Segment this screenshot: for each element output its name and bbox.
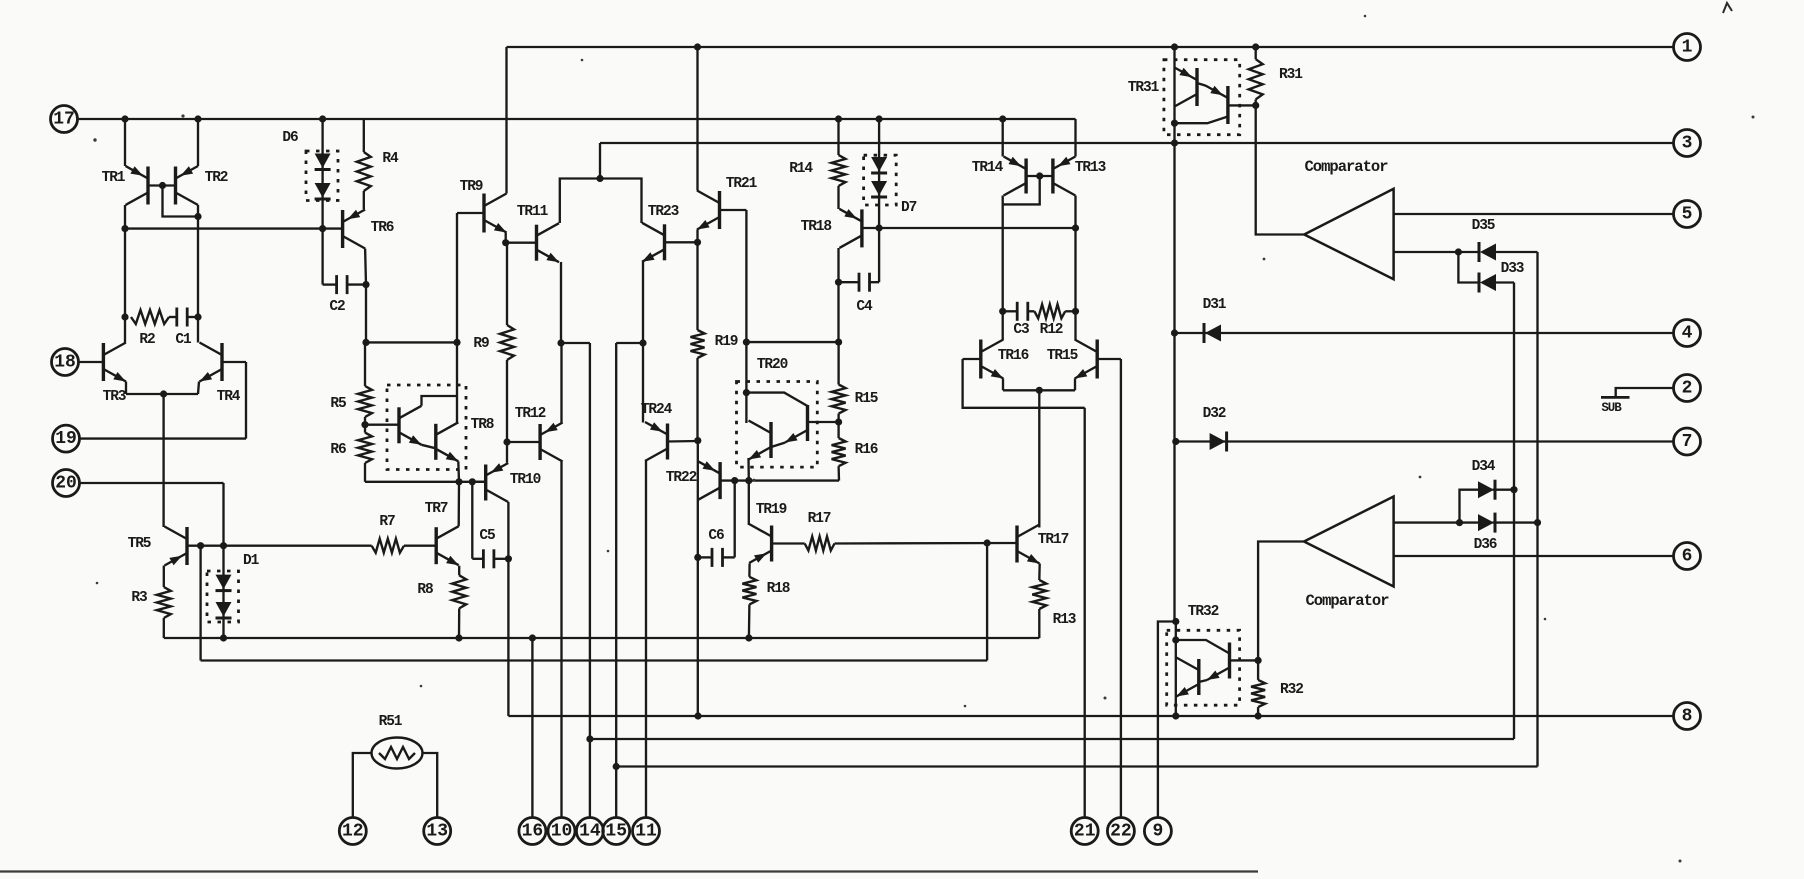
svg-text:R7: R7 [379,514,395,530]
junction TR2 collector [194,213,201,220]
junction R14 top [835,115,842,122]
wire TR21 collector [696,230,698,243]
pin 18 [52,349,79,376]
transistor TR19 [749,524,772,563]
wire pin20 down to TR5 base [222,483,224,546]
wire right column D35/D36 net [1536,252,1538,767]
svg-text:TR3: TR3 [103,389,126,405]
transistor TR10 [486,463,509,502]
wire TR1 emitter [124,119,126,166]
junction R32 top / comparator2 input [1255,657,1262,664]
svg-text:TR24: TR24 [641,402,673,418]
wire R6 bottom [364,463,366,482]
wire D35 to right column [1494,251,1538,253]
wire TR21 base vertical [745,210,747,342]
junction rail1/R31 [1252,43,1259,50]
svg-text:TR22: TR22 [666,470,697,486]
junction TR32 / pin8 rail [1172,712,1179,719]
junction R12 right [1072,308,1079,315]
svg-text:D32: D32 [1203,406,1226,422]
svg-text:SUB: SUB [1601,401,1622,415]
svg-text:R17: R17 [808,511,831,527]
junction TR22 collector / pin8 rail [694,712,701,719]
wire TR17 emitter [1038,564,1041,581]
junction TR23/TR24 emitters [639,339,646,346]
junction TR20 top [743,389,750,396]
wire TR3/TR4 emitter rail [126,393,198,395]
pin 20 [53,470,80,497]
wire TR2col to TR4 collector [197,317,199,343]
junction TR2 emitter [194,115,201,122]
svg-text:Comparator: Comparator [1304,158,1388,176]
wire pin-17 rail [78,118,1076,120]
wire R4 top [363,119,365,152]
transistor TR11 [537,223,560,262]
resistor R9 [500,325,514,360]
svg-text:1: 1 [1682,38,1693,58]
wire TR5 base [187,545,224,547]
wire R51 to pin 12 [353,753,372,818]
svg-text:R18: R18 [767,581,790,597]
svg-text:C5: C5 [479,528,495,544]
wire R19 top [696,242,698,330]
wire TR15 base [1097,358,1121,360]
wire pin 9 column [1158,622,1176,819]
diode group D1 box [207,571,239,622]
svg-text:R14: R14 [789,161,813,177]
resistor R18 [742,577,756,605]
svg-text:12: 12 [342,822,364,842]
ground SUB symbol [1616,388,1673,397]
resistor R4 [357,152,371,191]
diode D33 [1478,273,1481,293]
wire TR20a emitter down [747,458,750,481]
wire TR13 emitter from rail17 end [1074,119,1076,157]
wire R51 to pin 13 [423,753,438,818]
junction TR13 collector / TR18 base line [1072,224,1079,231]
junction node / TR9 base vertical [453,339,460,346]
svg-text:13: 13 [426,822,448,842]
svg-text:5: 5 [1682,205,1693,225]
wire pin 22 column [1120,359,1122,818]
wire TR32 inner diag [1199,680,1207,682]
wire R3 bottom [163,618,165,638]
junction pin15 / D35-D36 rail [613,763,620,770]
wire TR23 base [665,241,698,243]
junction C6 right riser [731,477,738,484]
transistor TR8b [436,422,459,461]
wire TR8 collectors vertical [456,342,458,424]
diode D7a [871,157,887,172]
transistor TR16 [981,340,1004,379]
wire comparator1 out to D35/D33 [1394,251,1459,253]
wire TR4 base [222,361,246,363]
junction R18 / bus A [745,634,752,641]
diode D32 [1210,433,1226,450]
svg-text:TR2: TR2 [205,170,228,186]
wire comparator2 input [1258,542,1304,661]
junction C5 left [469,478,476,485]
junction TR5 base / bus B [197,542,204,549]
svg-text:C3: C3 [1013,322,1029,338]
wire bus A (bottom common) [164,637,1040,639]
wire R4 bottom [363,191,365,209]
capacitor C1 [175,308,178,327]
pin 4 [1674,320,1701,347]
svg-text:TR17: TR17 [1038,532,1069,548]
transistor pair TR8 box [387,385,466,470]
svg-text:C2: C2 [329,299,345,315]
pin 8 [1674,703,1701,730]
scan mark top right [1723,3,1732,13]
junction pin14 / D33-D34 rail [586,735,593,742]
wire pin-3 rail [600,142,1673,144]
transistor TR32a [1207,643,1230,681]
svg-text:TR8: TR8 [471,417,494,433]
wire R8 bottom [458,608,461,638]
svg-text:TR6: TR6 [371,220,394,236]
wire TR12 base [507,441,540,443]
wire pin 15 column [615,343,617,818]
svg-text:D34: D34 [1472,459,1496,475]
wire TR5 base to R7 [224,545,372,547]
wire spine through TR32 [1175,622,1177,717]
junction C4 left [835,279,842,286]
resistor R31 [1249,59,1263,99]
transistor TR3 [103,343,126,382]
junction D36/D34 [1456,519,1463,526]
wire bus B riser [986,543,988,661]
diode D36 [1478,514,1494,531]
junction R31 bottom / comparator input [1252,102,1259,109]
svg-text:R16: R16 [855,442,878,458]
svg-text:TR14: TR14 [972,160,1004,176]
wire comparator2 out to D36 [1394,521,1460,523]
wire R9 bottom [506,360,508,442]
junction spine / D31 line [1171,329,1178,336]
svg-text:D33: D33 [1501,261,1524,277]
svg-text:D1: D1 [243,553,260,569]
diode D31 [1203,323,1206,343]
svg-text:3: 3 [1682,134,1693,154]
wire TR6 collector to node [365,285,367,343]
transistor TR14 [1004,157,1027,196]
resistor R32 [1251,680,1265,707]
transistor TR6 [343,210,366,249]
wire D36 to right column [1493,521,1538,523]
svg-text:D31: D31 [1203,297,1227,313]
wire R31 bottom [1255,99,1257,105]
wire C4 right riser [878,228,880,282]
wire TR31/D31/D32/TR32 spine [1173,47,1175,622]
junction R8 / bus A [455,634,462,641]
junction PI center [596,175,603,182]
junction spine / pin9 branch [1172,618,1179,625]
wire pin18 to TR3 base [79,361,104,363]
wire C5 left vertical [471,482,473,559]
pin 9 [1144,818,1171,845]
wire TR23 emitter down [642,262,644,343]
pin 21 [1071,818,1098,845]
svg-text:15: 15 [605,822,627,842]
wire R17 to TR17 base [835,542,1018,545]
wire D-node rail to pin 14 [590,738,1514,740]
wire R16 bottom [837,466,840,480]
diode group D6 box [306,151,338,201]
junction TR1 emitter [121,115,128,122]
svg-text:C4: C4 [856,299,873,315]
wire D31 / pin 4 line [1175,332,1674,334]
transistor TR2 [176,166,199,205]
svg-text:D6: D6 [282,130,298,146]
svg-text:R13: R13 [1053,612,1076,628]
wire TR8a collector up [422,396,458,406]
junction bus B riser / TR17 base line [984,539,991,546]
wire D36 line [1460,521,1479,523]
junction TR32 top [1172,636,1179,643]
svg-text:R12: R12 [1040,322,1063,338]
svg-text:4: 4 [1682,324,1693,344]
wire PI to pin3 rail [599,143,601,179]
wire pin-8 rail [508,715,1673,717]
wire TR21 base [720,209,747,211]
svg-text:2: 2 [1682,379,1693,399]
wire TR14-TR13 base tie [1026,175,1053,177]
wire R14 bottom [837,186,839,209]
transistor TR12 [540,423,563,462]
capacitor C3 [1016,302,1019,321]
wire TR18 base to D7 and TR13 collector [862,227,1076,229]
transistor TR31a [1175,68,1198,107]
wire scan edge artifact [0,870,1258,872]
wire to pin15 column [616,342,643,344]
svg-text:TR23: TR23 [648,204,679,220]
wire D7 string [878,119,880,228]
svg-text:8: 8 [1682,707,1693,727]
wire R19 bottom [696,358,698,441]
wire TR9 base vertical [456,213,458,342]
wire column D33/D34 net [1513,283,1515,740]
pin 6 [1674,543,1701,570]
junction TR20 emitter / TR19 collector [745,477,752,484]
svg-text:R32: R32 [1280,682,1303,698]
wire TR12 emitter up [560,343,562,423]
wire TR6 collector [364,249,367,285]
wire TR2 emitter [197,119,199,166]
wire R14 top [837,119,839,155]
transistor TR4 [200,343,223,382]
pin 7 [1674,428,1701,455]
wire TR11 base [506,242,537,244]
junction rail1/TR21 emitter [694,43,701,50]
junction R15/R16 [835,418,842,425]
svg-text:22: 22 [1110,822,1132,842]
svg-text:TR10: TR10 [510,472,541,488]
svg-text:C1: C1 [175,332,192,348]
svg-text:11: 11 [635,822,657,842]
transistor TR32b [1176,658,1199,697]
junction base vert / R15 line [743,339,750,346]
wire D35 line [1458,251,1479,253]
transistor TR20a [749,421,772,460]
wire TR13 collector down [1074,196,1076,312]
diode D7b [871,181,887,196]
wire D1 string [222,546,224,638]
junction pin16 / bus A [529,634,536,641]
wire TR19 emitter [748,564,751,577]
wire to TR16 collector [1002,311,1004,340]
op-amp comparator 2 [1304,497,1394,587]
wire TR1col to TR3 collector [124,317,126,343]
junction D6 top [319,115,326,122]
wire R15/R16 link [837,414,839,438]
pin 1 [1674,34,1701,61]
wire D34 to column [1493,489,1515,491]
junction TR23 base / TR21 collector / R19 [694,239,701,246]
wire TR8 base in [365,424,399,426]
transistor TR20b [785,405,808,443]
svg-text:R2: R2 [139,332,155,348]
resistor R12 [1034,304,1065,318]
svg-text:10: 10 [551,822,573,842]
wire pin 19 line [80,437,247,439]
diode D6b [315,183,331,198]
svg-text:TR31: TR31 [1128,80,1160,96]
wire D-node rail to pin 15 [616,765,1537,767]
scan specks [93,138,96,141]
transistor pair TR31 box [1164,60,1240,135]
wire TR8a emitter to TR8b base [422,445,436,449]
junction D6 bottom / TR6 base [319,225,326,232]
wire TR9 base [457,212,484,214]
diode D1a [216,575,232,590]
svg-text:TR1: TR1 [102,170,126,186]
wire TR19 collector up [748,481,750,525]
wire D33 to column [1494,281,1514,283]
wire TR32 collector tie [1176,640,1230,654]
junction R19 / TR24 base [694,437,701,444]
svg-text:R15: R15 [855,391,878,407]
wire TR5 base down to bus B [199,546,201,661]
transistor TR5 [165,527,188,566]
junction TR7 collector [455,478,462,485]
wire TR21 emitter from rail1 [696,47,698,191]
wire comparator1 input [1256,105,1305,234]
pin 13 [424,818,451,845]
junction D34 / column [1510,486,1517,493]
junction C2 right / TR6 collector [362,281,369,288]
svg-text:TR12: TR12 [515,406,546,422]
wire TR20b emitter to TR20a [771,443,785,447]
svg-text:D36: D36 [1474,537,1497,553]
pin 5 [1674,201,1701,228]
svg-text:TR13: TR13 [1075,160,1106,176]
junction TR9 collector / TR11 base [502,239,509,246]
capacitor C4 [858,273,861,292]
junction base tie [1036,172,1043,179]
transistor TR18 [839,209,862,248]
wire TR9 emitter from rail1 [505,47,507,194]
wire TR24 emitter up [642,343,644,423]
wire TR11 emitter down [560,262,562,343]
wire TR4 emitter [198,382,199,395]
wire top rail to pin 1 [507,46,1674,48]
svg-text:21: 21 [1074,822,1096,842]
resistor R16 [832,438,846,466]
wire emitter rail to TR5 collector [162,394,164,527]
wire PI top structure [560,179,642,224]
pin 19 [53,425,80,452]
pin 17 [51,106,78,133]
junction C6 left [694,554,701,561]
resistor R15 [832,385,846,414]
wire TR10 base [472,481,485,483]
pin 15 [603,818,630,845]
svg-text:TR20: TR20 [757,357,788,373]
pin 22 [1107,818,1134,845]
transistor TR23 [642,223,665,262]
junction emitter rail center [1036,387,1043,394]
svg-text:TR4: TR4 [217,389,241,405]
wire TR6 base line [125,227,343,229]
transistor TR24 [645,422,668,461]
wire D32 / pin 7 line [1176,440,1673,442]
transistor TR8a [399,406,422,445]
wire TR9 collector [505,233,507,243]
junction TR31 collectors [1171,120,1178,127]
wire D6 string [321,119,323,229]
resistor R13 [1032,580,1046,609]
wire TR20 left vertical [745,393,747,423]
wire TR3 emitter [125,382,127,395]
resistor R19 [691,330,705,358]
wire TR31a emitter to TR31b [1197,83,1206,86]
wire R32 bottom [1257,707,1259,716]
wire node line y342 [366,341,457,343]
wire base to TR14 collector [1003,176,1040,204]
wire pin 20 line [80,482,224,484]
wire C2 left feed [321,229,323,285]
junction D1 bottom / bus A [220,634,227,641]
svg-text:TR5: TR5 [128,536,151,552]
wire TR19 base to R17 [772,542,805,544]
junction R32 / pin8 rail [1255,712,1262,719]
wire TR24 collector to pin 11 [645,461,647,818]
svg-text:R6: R6 [330,442,346,458]
resistor R51 element [379,747,415,759]
wire TR10 collector down [507,502,509,716]
junction TR1 collector / TR6 base line [121,225,128,232]
wire R18 bottom [748,604,751,638]
wire to TR15 collector [1074,311,1076,340]
wire TR14 emitter [1002,119,1004,157]
transistor TR7 [436,526,459,565]
wire to D33 [1458,252,1479,283]
wire TR1-TR2 base tie [148,184,176,186]
svg-text:18: 18 [54,353,76,373]
resistor R5 [358,386,372,417]
junction D7 top [876,115,883,122]
junction TR6 collector / R5 [362,339,369,346]
pin 11 [633,818,660,845]
junction D7 bottom / TR18 base [876,224,883,231]
junction base tie [159,182,166,189]
svg-text:R5: R5 [330,396,346,412]
wire pin 14 column [589,343,591,818]
transistor pair TR32 box [1167,630,1240,705]
wire TR8 output line y481.8 [365,481,486,483]
svg-text:TR18: TR18 [801,219,832,235]
